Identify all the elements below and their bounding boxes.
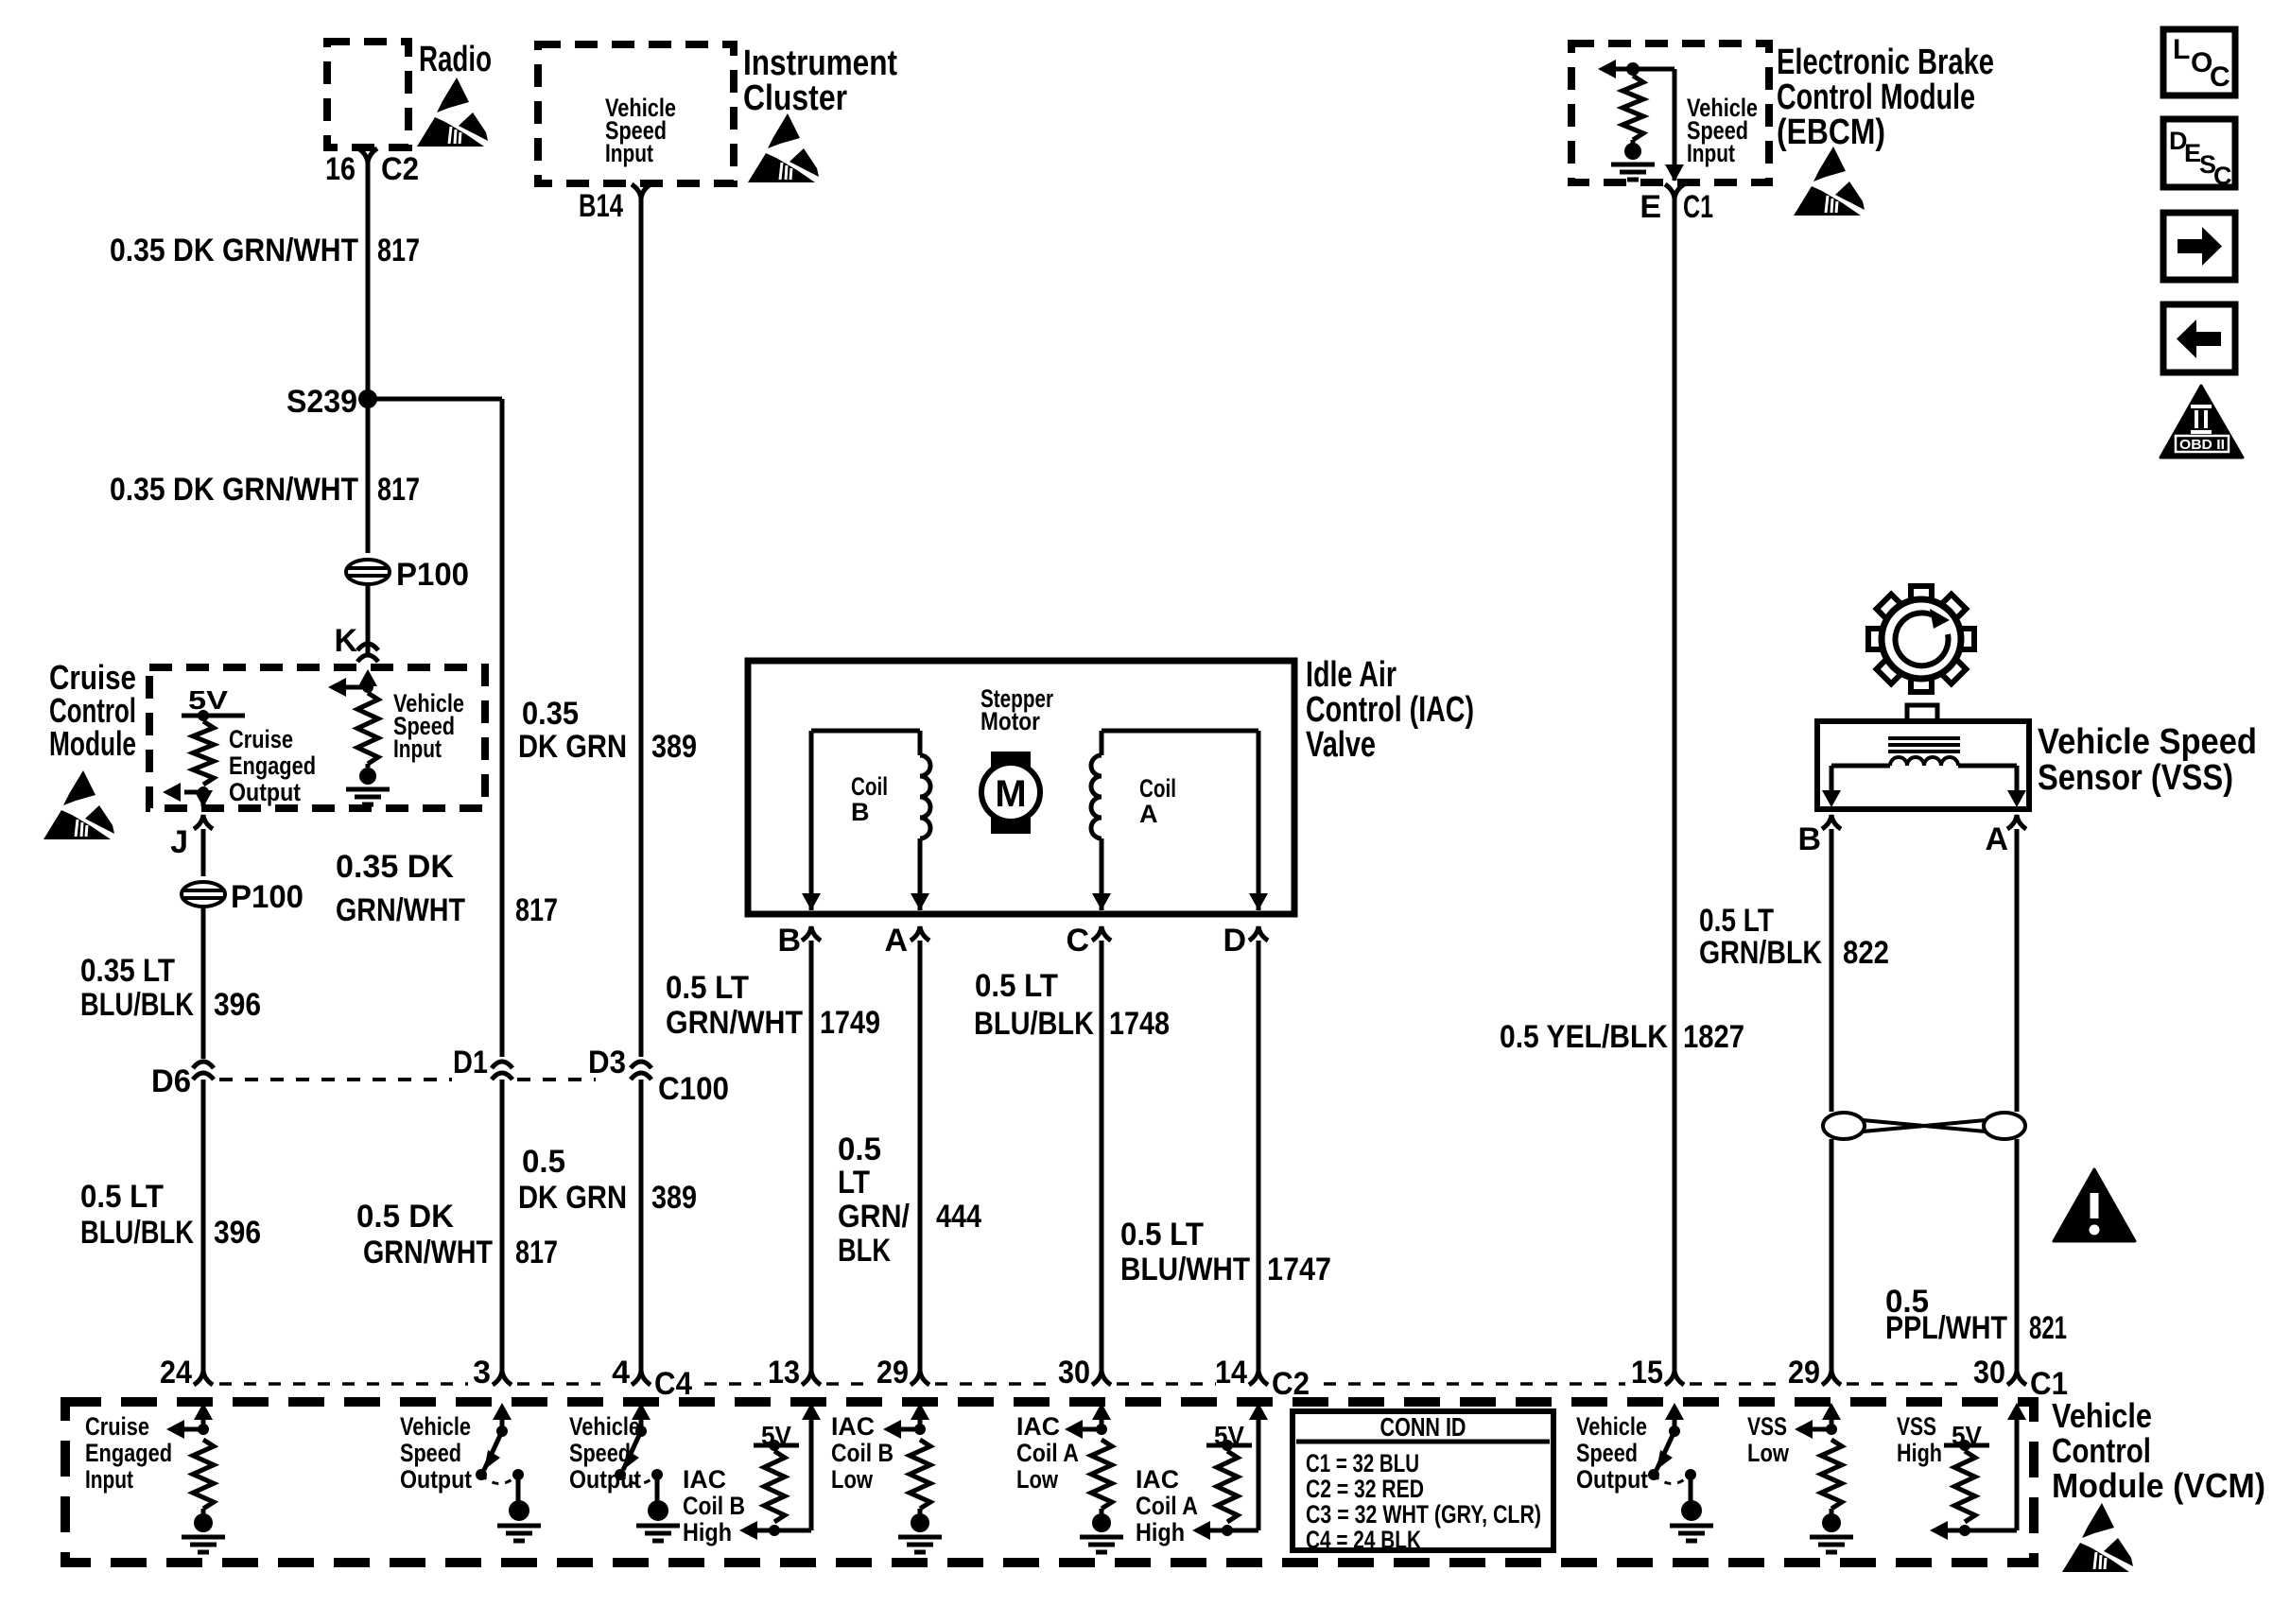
svg-text:817: 817 xyxy=(377,233,420,268)
svg-text:B: B xyxy=(1797,821,1821,857)
svg-text:0.35 DK GRN/WHT: 0.35 DK GRN/WHT xyxy=(110,233,358,268)
svg-text:Speed: Speed xyxy=(1576,1439,1638,1467)
svg-text:D: D xyxy=(1223,923,1246,959)
svg-text:Low: Low xyxy=(831,1465,874,1494)
svg-text:DK GRN: DK GRN xyxy=(518,1180,627,1216)
svg-text:High: High xyxy=(1136,1518,1185,1546)
svg-text:15: 15 xyxy=(1631,1355,1663,1391)
svg-text:C: C xyxy=(2213,162,2232,190)
svg-text:Cruise: Cruise xyxy=(229,725,293,753)
svg-text:IAC: IAC xyxy=(683,1465,726,1494)
svg-text:Vehicle: Vehicle xyxy=(400,1412,471,1441)
svg-text:C4 = 24 BLK: C4 = 24 BLK xyxy=(1306,1526,1421,1554)
svg-text:B14: B14 xyxy=(579,188,623,224)
svg-text:24: 24 xyxy=(160,1355,192,1391)
svg-text:Valve: Valve xyxy=(1306,725,1376,765)
svg-text:0.5 LT: 0.5 LT xyxy=(1699,903,1774,939)
svg-text:BLK: BLK xyxy=(838,1233,891,1269)
svg-text:OBD II: OBD II xyxy=(2179,437,2225,453)
svg-text:16: 16 xyxy=(325,151,356,187)
svg-text:389: 389 xyxy=(651,729,697,765)
svg-text:396: 396 xyxy=(214,1215,261,1251)
svg-text:DK GRN: DK GRN xyxy=(518,729,627,765)
svg-text:0.5 LT: 0.5 LT xyxy=(666,970,749,1006)
svg-text:817: 817 xyxy=(515,892,558,928)
svg-text:Idle Air: Idle Air xyxy=(1306,655,1397,695)
svg-text:C1 = 32 BLU: C1 = 32 BLU xyxy=(1306,1449,1419,1477)
svg-text:High: High xyxy=(1897,1439,1942,1467)
svg-text:29: 29 xyxy=(876,1355,909,1391)
svg-text:Coil: Coil xyxy=(851,772,888,801)
svg-text:0.5 LT: 0.5 LT xyxy=(975,968,1058,1004)
svg-text:Coil B: Coil B xyxy=(831,1439,894,1467)
svg-text:S239: S239 xyxy=(286,384,357,420)
svg-text:GRN/WHT: GRN/WHT xyxy=(666,1005,803,1041)
svg-text:14: 14 xyxy=(1215,1355,1247,1391)
svg-text:Control: Control xyxy=(2052,1431,2151,1470)
svg-text:0.5 LT: 0.5 LT xyxy=(80,1179,164,1215)
svg-text:D1: D1 xyxy=(453,1045,488,1080)
svg-text:GRN/: GRN/ xyxy=(838,1199,910,1235)
svg-text:Output: Output xyxy=(1576,1465,1648,1494)
svg-text:13: 13 xyxy=(768,1355,800,1391)
svg-text:IAC: IAC xyxy=(1136,1465,1179,1494)
svg-text:1827: 1827 xyxy=(1683,1019,1744,1055)
svg-text:A: A xyxy=(1985,821,2008,857)
svg-text:Input: Input xyxy=(85,1465,133,1494)
svg-text:817: 817 xyxy=(377,472,420,508)
svg-text:GRN/BLK: GRN/BLK xyxy=(1699,935,1822,971)
svg-text:0.5 DK: 0.5 DK xyxy=(356,1199,454,1235)
svg-text:Instrument: Instrument xyxy=(743,43,897,83)
svg-text:C3 = 32 WHT (GRY, CLR): C3 = 32 WHT (GRY, CLR) xyxy=(1306,1500,1541,1529)
svg-text:30: 30 xyxy=(1973,1355,2005,1391)
svg-text:L: L xyxy=(2173,34,2190,65)
svg-text:Module: Module xyxy=(49,724,136,763)
svg-text:1747: 1747 xyxy=(1267,1252,1331,1287)
svg-text:D6: D6 xyxy=(151,1063,191,1099)
svg-text:0.35: 0.35 xyxy=(522,696,579,732)
svg-text:Radio: Radio xyxy=(419,40,492,79)
svg-text:822: 822 xyxy=(1843,935,1889,971)
svg-text:30: 30 xyxy=(1058,1355,1090,1391)
svg-text:4: 4 xyxy=(612,1355,630,1391)
svg-text:D3: D3 xyxy=(588,1045,626,1080)
svg-text:Control (IAC): Control (IAC) xyxy=(1306,690,1474,730)
svg-text:Engaged: Engaged xyxy=(85,1439,172,1467)
svg-text:P100: P100 xyxy=(396,557,469,593)
svg-text:C4: C4 xyxy=(654,1366,692,1402)
svg-text:VSS: VSS xyxy=(1747,1412,1787,1441)
svg-text:Output: Output xyxy=(569,1465,641,1494)
svg-text:Output: Output xyxy=(400,1465,472,1494)
svg-text:GRN/WHT: GRN/WHT xyxy=(336,892,465,928)
svg-text:BLU/BLK: BLU/BLK xyxy=(80,1215,194,1251)
svg-text:Speed: Speed xyxy=(400,1439,461,1467)
svg-text:0.35 DK: 0.35 DK xyxy=(336,849,454,885)
svg-text:Output: Output xyxy=(229,778,301,806)
svg-text:Cruise: Cruise xyxy=(85,1412,149,1441)
svg-text:0.35 LT: 0.35 LT xyxy=(80,953,175,989)
svg-text:(EBCM): (EBCM) xyxy=(1777,112,1885,152)
svg-text:M: M xyxy=(995,773,1026,815)
svg-text:C2: C2 xyxy=(1272,1366,1310,1402)
svg-text:B: B xyxy=(851,798,870,826)
svg-text:Low: Low xyxy=(1016,1465,1059,1494)
svg-text:C1: C1 xyxy=(1683,189,1713,225)
svg-text:Electronic Brake: Electronic Brake xyxy=(1777,43,1994,82)
svg-text:Input: Input xyxy=(393,734,442,763)
svg-text:Coil A: Coil A xyxy=(1136,1492,1198,1520)
svg-text:C2: C2 xyxy=(381,151,419,187)
svg-text:Cluster: Cluster xyxy=(743,78,847,118)
svg-text:0.35 DK GRN/WHT: 0.35 DK GRN/WHT xyxy=(110,472,358,508)
svg-text:LT: LT xyxy=(838,1165,870,1201)
svg-text:C100: C100 xyxy=(658,1071,729,1107)
svg-text:3: 3 xyxy=(473,1355,491,1391)
svg-text:J: J xyxy=(170,824,188,860)
svg-text:C: C xyxy=(1066,923,1089,959)
svg-text:Vehicle: Vehicle xyxy=(2052,1396,2152,1435)
svg-text:Vehicle Speed: Vehicle Speed xyxy=(2038,722,2257,762)
svg-text:817: 817 xyxy=(515,1235,558,1270)
svg-text:0.5: 0.5 xyxy=(522,1144,565,1180)
svg-text:1749: 1749 xyxy=(820,1005,880,1041)
svg-text:Input: Input xyxy=(1687,139,1735,167)
svg-text:Coil A: Coil A xyxy=(1016,1439,1079,1467)
svg-text:GRN/WHT: GRN/WHT xyxy=(363,1235,493,1270)
svg-text:Vehicle: Vehicle xyxy=(1576,1412,1647,1441)
svg-text:E: E xyxy=(1640,189,1661,225)
svg-text:C2 = 32 RED: C2 = 32 RED xyxy=(1306,1475,1424,1503)
svg-text:C: C xyxy=(2210,61,2230,93)
svg-text:Control Module: Control Module xyxy=(1777,78,1975,117)
svg-text:0.5 LT: 0.5 LT xyxy=(1120,1217,1204,1253)
svg-text:Motor: Motor xyxy=(980,707,1040,735)
svg-text:IAC: IAC xyxy=(831,1412,875,1441)
svg-text:5V: 5V xyxy=(188,685,228,715)
svg-text:A: A xyxy=(1139,800,1158,828)
svg-text:BLU/BLK: BLU/BLK xyxy=(974,1006,1094,1042)
svg-text:Module (VCM): Module (VCM) xyxy=(2052,1466,2265,1505)
svg-text:Coil: Coil xyxy=(1139,774,1176,803)
svg-text:P100: P100 xyxy=(231,879,304,915)
svg-text:Vehicle: Vehicle xyxy=(569,1412,640,1441)
svg-text:CONN ID: CONN ID xyxy=(1380,1412,1466,1442)
svg-text:Speed: Speed xyxy=(569,1439,631,1467)
svg-text:High: High xyxy=(683,1518,732,1546)
svg-text:444: 444 xyxy=(936,1199,981,1235)
svg-text:K: K xyxy=(334,623,357,659)
svg-text:389: 389 xyxy=(651,1180,697,1216)
svg-text:VSS: VSS xyxy=(1897,1412,1936,1441)
svg-text:A: A xyxy=(884,923,908,959)
svg-text:BLU/WHT: BLU/WHT xyxy=(1120,1252,1250,1287)
svg-text:0.5: 0.5 xyxy=(838,1132,881,1167)
svg-text:396: 396 xyxy=(214,987,261,1023)
svg-text:29: 29 xyxy=(1788,1355,1820,1391)
svg-text:Coil B: Coil B xyxy=(683,1492,745,1520)
svg-text:Low: Low xyxy=(1747,1439,1790,1467)
svg-text:Sensor (VSS): Sensor (VSS) xyxy=(2038,758,2233,798)
svg-text:Engaged: Engaged xyxy=(229,752,316,780)
svg-text:Input: Input xyxy=(605,139,653,167)
svg-text:1748: 1748 xyxy=(1109,1006,1170,1042)
svg-text:0.5 YEL/BLK: 0.5 YEL/BLK xyxy=(1500,1019,1668,1055)
svg-text:821: 821 xyxy=(2029,1310,2067,1346)
svg-text:B: B xyxy=(777,923,801,959)
svg-text:IAC: IAC xyxy=(1016,1412,1060,1441)
svg-text:BLU/BLK: BLU/BLK xyxy=(80,987,194,1023)
svg-text:PPL/WHT: PPL/WHT xyxy=(1885,1310,2007,1346)
